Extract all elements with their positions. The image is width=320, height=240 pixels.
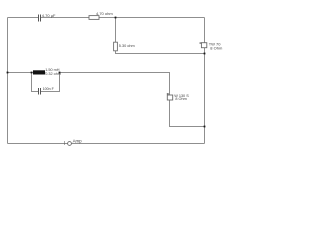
wire top (R1 to top-right corner) xyxy=(99,17,205,19)
capacitor C1 4.70 uF xyxy=(39,14,41,21)
svg-text:4.70 ohm: 4.70 ohm xyxy=(96,11,113,16)
svg-text:100n F: 100n F xyxy=(43,87,55,91)
label C1 value 4.70 uF xyxy=(42,13,56,18)
wire right rail below tweeter xyxy=(204,48,206,144)
svg-text:4.70 µF: 4.70 µF xyxy=(42,13,56,18)
svg-text:8 Ohm: 8 Ohm xyxy=(175,97,186,101)
wire top (C1 to R1) xyxy=(41,17,89,19)
node C junction middle branch on left rail xyxy=(7,72,9,74)
wire parallel-cap loop right xyxy=(41,73,60,92)
wire bottom right of amp xyxy=(71,143,204,145)
svg-text:5.30 ohm: 5.30 ohm xyxy=(119,44,135,48)
label Amp xyxy=(73,139,83,144)
wire middle branch (L1 to woofer corner) xyxy=(45,73,170,96)
speaker TW 70 (tweeter) xyxy=(200,43,207,48)
label W 130 S impedance 8 Ohm xyxy=(175,97,186,101)
inductor L1 1.50 mH xyxy=(33,70,45,74)
resistor R1 4.70 ohm xyxy=(89,16,99,20)
amplifier Amp source circle xyxy=(68,142,72,146)
wire R2 bottom to horizontal xyxy=(116,51,205,54)
label W 130 S xyxy=(174,94,189,98)
wire middle branch (rail to L1) xyxy=(8,72,34,74)
wire shunt branch from node A through R2 xyxy=(115,18,117,43)
node D junction left of L1 xyxy=(31,72,33,74)
wire right rail above tweeter xyxy=(204,18,206,43)
node B junction shunt to right rail xyxy=(204,53,206,55)
label TW 70 impedance 8 Ohm xyxy=(210,46,223,51)
wire bottom left of amp xyxy=(8,143,68,145)
label R1 value 4.70 ohm xyxy=(96,11,113,16)
capacitor C2 100n F xyxy=(39,88,41,95)
speaker W 130 S (woofer) xyxy=(167,93,173,100)
node E junction right of L1 xyxy=(59,72,61,74)
label L1 resistance 0.32 ohm xyxy=(45,72,61,76)
wire woofer bottom to right rail xyxy=(170,100,205,127)
wire left rail xyxy=(7,18,9,144)
wire parallel-cap loop left xyxy=(32,73,39,92)
label R2 value 5.30 ohm xyxy=(119,44,135,48)
svg-text:Amp: Amp xyxy=(73,139,83,144)
label C2 value 100n F xyxy=(43,87,55,91)
amplifier Amp source plus terminal xyxy=(64,141,66,145)
label L1 value 1.50 mH xyxy=(45,68,60,72)
label TW 70 xyxy=(209,41,222,46)
resistor R2 5.30 ohm xyxy=(114,42,118,51)
wire top (left of C1) xyxy=(8,17,39,19)
node F junction woofer branch on right rail xyxy=(204,126,206,128)
node A junction top tee xyxy=(115,17,117,19)
svg-text:8 Ohm: 8 Ohm xyxy=(210,46,223,51)
